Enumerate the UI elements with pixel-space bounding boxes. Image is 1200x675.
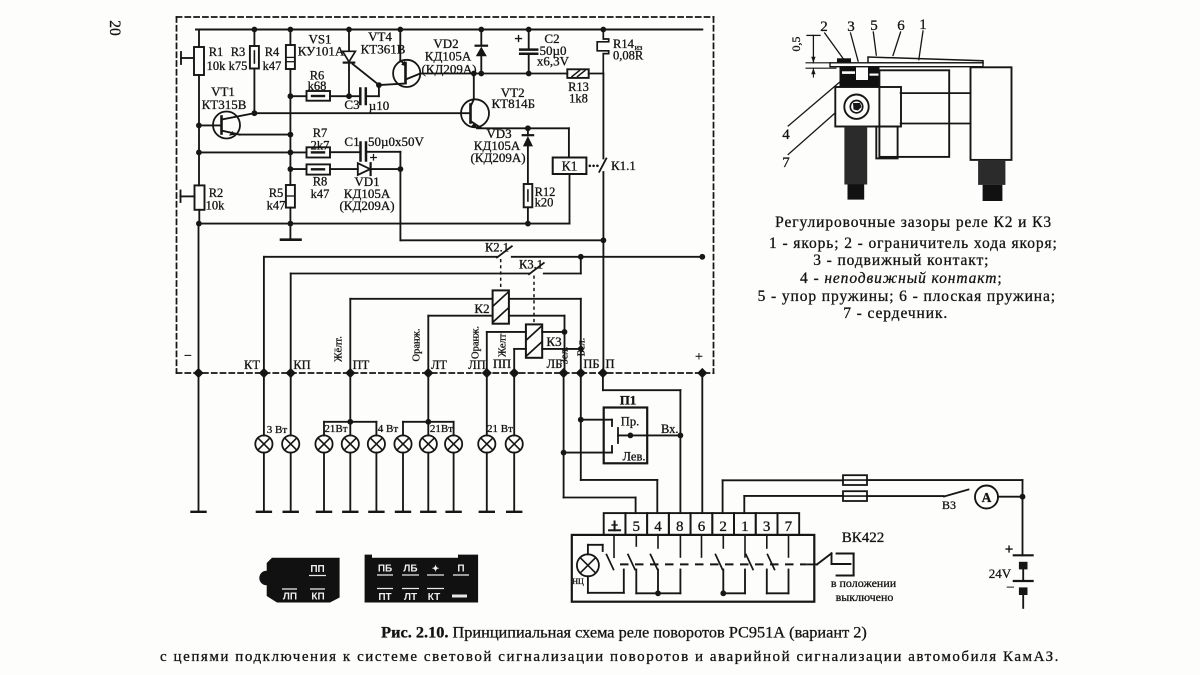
svg-text:К1.1: К1.1 — [611, 158, 636, 173]
terminal P — [598, 368, 608, 378]
svg-text:4: 4 — [782, 127, 790, 143]
contact K2.1 — [497, 246, 512, 257]
relay coil K1 — [553, 158, 587, 175]
BK422 contact stubs — [613, 535, 615, 557]
svg-text:10k: 10k — [206, 199, 226, 213]
svg-text:ПТ: ПТ — [353, 358, 370, 372]
relay unit dashed border — [177, 16, 714, 18]
svg-text:ПБ: ПБ — [378, 564, 392, 575]
svg-text:П: П — [605, 357, 614, 371]
wire pin 2 to fuse 1 — [722, 480, 724, 513]
svg-text:21 Вт: 21 Вт — [487, 423, 513, 435]
svg-text:1: 1 — [741, 519, 749, 535]
svg-text:6: 6 — [698, 519, 706, 535]
relay mech drawing: flat spring 6 — [868, 57, 983, 63]
resistor R5 — [286, 185, 295, 208]
lamp LT-3 — [445, 435, 462, 452]
svg-text:ЛТ: ЛТ — [431, 358, 447, 372]
svg-text:+: + — [514, 32, 523, 48]
svg-text:ПП: ПП — [493, 357, 511, 371]
top supply rail — [196, 29, 702, 31]
relay mech drawing: yoke bars — [901, 92, 971, 94]
pilot lamp in BK422 — [577, 554, 599, 576]
lamp PT-2 — [342, 435, 359, 452]
relay mech drawing: right block — [971, 67, 1012, 160]
terminal KP — [286, 368, 296, 378]
lamp LT-1 21W — [394, 435, 411, 452]
BK422 bottom links — [635, 570, 637, 594]
svg-text:(КД209А): (КД209А) — [421, 61, 476, 76]
wire plus riser to pin 6 — [701, 373, 703, 513]
wire Lev link — [564, 452, 612, 454]
svg-text:П1: П1 — [620, 393, 637, 408]
svg-text:1k8: 1k8 — [569, 92, 588, 106]
svg-text:ВК422: ВК422 — [842, 530, 885, 546]
diode VD1 — [330, 168, 358, 170]
svg-text:4: 4 — [654, 519, 662, 535]
svg-text:0,5: 0,5 — [789, 37, 803, 52]
wire LP to K3 — [486, 332, 488, 373]
svg-text:в положении: в положении — [831, 576, 897, 590]
resistor R12 — [524, 184, 533, 207]
wire R4 down to R5 — [289, 69, 291, 185]
resistor R4 — [289, 30, 291, 46]
wire PP to K3 — [513, 349, 515, 373]
thyristor VS1 — [348, 30, 350, 52]
resistor R8 — [290, 168, 306, 170]
lamp KP — [290, 373, 292, 435]
wire K2.1 from KT terminal — [263, 257, 265, 373]
wire PB to pin 4 — [580, 373, 582, 480]
wire LT to K2 — [427, 316, 429, 373]
BK422 actuator lever — [807, 563, 817, 565]
svg-text:4 Вт: 4 Вт — [378, 423, 399, 435]
relay mech drawing: armature limiter 2 black cap — [837, 58, 851, 63]
shunt resistor R14 — [597, 30, 609, 74]
svg-text:R1: R1 — [209, 45, 224, 59]
svg-text:К1: К1 — [562, 159, 578, 174]
svg-text:КТ361В: КТ361В — [361, 42, 406, 57]
lamp leads inside BK422 — [587, 545, 589, 555]
diode VD2 — [480, 30, 482, 46]
svg-text:−: − — [184, 349, 192, 364]
connector BK422 body — [572, 535, 815, 602]
relay mech drawing: left core leg 7 — [844, 127, 867, 185]
wire K3 right bottom — [542, 348, 581, 350]
svg-text:4 - неподвижный контакт;: 4 - неподвижный контакт; — [800, 270, 1002, 287]
resistor R6 — [290, 95, 306, 97]
relay mech drawing: contact stack black — [840, 63, 880, 88]
transistor VT4 — [393, 60, 420, 87]
svg-text:ПБ: ПБ — [583, 357, 599, 371]
lamp group PT bus — [349, 373, 351, 422]
svg-text:5: 5 — [633, 519, 641, 535]
svg-text:x6,3V: x6,3V — [537, 54, 570, 69]
ammeter A — [975, 486, 998, 509]
svg-text:✦: ✦ — [432, 564, 440, 574]
wire pin 1 to fuse 2 — [743, 496, 745, 513]
svg-text:НЦ: НЦ — [572, 577, 584, 586]
svg-text:КТ: КТ — [244, 358, 260, 372]
svg-text:+: + — [1005, 542, 1014, 558]
switch V3 — [944, 490, 969, 497]
wire Pr link — [581, 419, 612, 421]
svg-text:C1: C1 — [344, 134, 359, 149]
wire K3 right top — [542, 331, 564, 333]
wire P to pin 8 — [602, 373, 604, 390]
svg-text:20: 20 — [106, 20, 123, 36]
wire fuse 2 to switch V3 — [867, 495, 944, 497]
svg-text:µ10: µ10 — [369, 98, 390, 113]
resistor R2 — [195, 185, 205, 209]
svg-text:2: 2 — [820, 19, 828, 35]
connector block 2 — [365, 555, 479, 603]
svg-text:Оранж.: Оранж. — [412, 329, 423, 362]
battery 24V — [1014, 554, 1033, 556]
wire K2 right top to PB line — [509, 298, 581, 300]
connector BK422 pin row — [604, 513, 626, 535]
terminal LB — [559, 368, 569, 378]
wire VD1 node down to P wire — [399, 169, 401, 240]
svg-text:ЛТ: ЛТ — [404, 592, 417, 603]
wire VT2 emitter to K1 — [477, 127, 569, 129]
svg-text:5: 5 — [870, 18, 878, 34]
relay mech drawing: body — [879, 70, 949, 157]
svg-text:k20: k20 — [535, 196, 554, 210]
resistor R7 wire — [199, 151, 307, 153]
fuse FU1 — [843, 475, 867, 485]
svg-text:А: А — [982, 490, 992, 505]
BK422 coupling dashed line — [620, 563, 806, 565]
wire VT4 collector to R13 — [420, 73, 567, 75]
terminal PP — [509, 368, 519, 378]
svg-text:C3: C3 — [344, 97, 359, 112]
resistor R13 — [567, 69, 588, 78]
terminal bus dashed line (border bottom) — [177, 372, 714, 374]
wire VT2 base — [254, 112, 470, 114]
svg-text:ЛП: ЛП — [468, 358, 486, 372]
svg-text:7: 7 — [785, 519, 793, 535]
capacitor C3 — [359, 89, 362, 105]
svg-text:3 Вт: 3 Вт — [267, 424, 288, 436]
svg-text:П: П — [457, 564, 464, 575]
left vertical R1-R2 — [198, 75, 200, 185]
svg-text:3: 3 — [763, 519, 771, 535]
svg-text:7 - сердечник.: 7 - сердечник. — [843, 305, 948, 322]
svg-text:Зел.: Зел. — [560, 347, 571, 365]
svg-text:К2: К2 — [474, 301, 489, 316]
svg-text:Лев.: Лев. — [623, 450, 646, 464]
switch P1 box — [604, 408, 648, 464]
svg-text:R3: R3 — [231, 45, 246, 59]
lamp LT-2 — [420, 435, 437, 452]
svg-text:k47: k47 — [263, 59, 282, 73]
svg-text:Оранж.: Оранж. — [471, 326, 482, 359]
svg-text:К3.1: К3.1 — [519, 258, 543, 272]
relay coil K3 — [526, 324, 542, 357]
transistor VT1 — [213, 112, 240, 139]
svg-text:КТ814Б: КТ814Б — [492, 96, 536, 111]
terminal KT — [259, 368, 269, 378]
lamp PT-1 21W — [315, 435, 332, 452]
svg-text:k75: k75 — [229, 59, 248, 73]
lamp group LT bus — [427, 373, 429, 422]
svg-text:КУ101А: КУ101А — [298, 44, 345, 59]
terminal minus — [193, 368, 203, 378]
svg-text:Жёлт.: Жёлт. — [334, 336, 345, 362]
resistor R3 — [253, 30, 255, 47]
svg-text:10k: 10k — [207, 59, 227, 73]
svg-text:КТ315В: КТ315В — [202, 97, 247, 112]
relay mech drawing: bolt — [844, 95, 868, 119]
svg-text:КП: КП — [311, 592, 324, 603]
wire K1.1 riser to P terminal — [602, 74, 604, 159]
svg-text:50µ0x50V: 50µ0x50V — [368, 134, 424, 149]
transistor VT2 — [473, 74, 475, 100]
terminal LT — [423, 368, 433, 378]
svg-text:7: 7 — [782, 155, 790, 171]
relay coil K2 — [493, 290, 509, 323]
svg-text:(КД209А): (КД209А) — [339, 198, 394, 213]
terminal PT — [345, 368, 355, 378]
minus wire termination — [198, 373, 200, 512]
lamp PT-3 4W — [368, 435, 385, 452]
svg-text:8: 8 — [676, 519, 684, 535]
lamp LP 21W — [486, 373, 488, 435]
svg-text:КП: КП — [293, 358, 310, 372]
svg-text:2: 2 — [719, 519, 727, 535]
svg-text:Рис. 2.10. Принципиальная схем: Рис. 2.10. Принципиальная схема реле пов… — [381, 623, 867, 642]
svg-text:ЛП: ЛП — [283, 592, 297, 603]
terminal plus — [697, 368, 707, 378]
capacitor C1 — [330, 151, 360, 153]
svg-text:с цепями подключения к системе: с цепями подключения к системе световой … — [160, 649, 1060, 665]
terminal PB — [576, 368, 586, 378]
svg-text:(КД209А): (КД209А) — [470, 150, 525, 165]
lamp PP — [513, 373, 515, 435]
svg-text:2k7: 2k7 — [311, 139, 330, 153]
wire LB to pin 5 — [563, 373, 565, 498]
resistor R1 — [198, 30, 200, 48]
svg-text:КТ: КТ — [428, 592, 440, 603]
svg-text:k47: k47 — [267, 199, 286, 213]
svg-text:Бел.: Бел. — [577, 338, 588, 357]
minus riser — [198, 224, 200, 373]
svg-text:ЛБ: ЛБ — [403, 564, 417, 575]
svg-text:ПТ: ПТ — [378, 592, 391, 603]
svg-text:ПП: ПП — [310, 564, 324, 575]
svg-text:К2.1: К2.1 — [485, 241, 509, 255]
svg-text:k47: k47 — [311, 187, 330, 201]
relay mech drawing: armature plate 1 — [830, 63, 983, 67]
svg-text:3 - подвижный контакт;: 3 - подвижный контакт; — [813, 252, 989, 269]
svg-text:+: + — [695, 350, 703, 365]
svg-text:1 - якорь; 2 - ограничитель хо: 1 - якорь; 2 - ограничитель хода якоря; — [769, 235, 1058, 252]
svg-text:Вх.: Вх. — [661, 422, 679, 436]
diode VD3 — [527, 128, 529, 135]
svg-text:24V: 24V — [989, 566, 1012, 581]
wire K3.1 from KP terminal — [290, 274, 292, 374]
svg-text:Регулировочные зазоры реле К2: Регулировочные зазоры реле К2 и К3 — [775, 214, 1052, 231]
connector block 1 — [267, 558, 340, 603]
wire PT to K2 — [349, 299, 351, 373]
relay mech drawing: right leg — [978, 160, 1005, 185]
svg-text:выключено: выключено — [836, 590, 894, 604]
bottom rail (minus) — [199, 223, 570, 225]
terminal LP — [482, 368, 492, 378]
resistor R7 — [307, 147, 331, 157]
svg-text:−: − — [1006, 580, 1014, 596]
BK422 contact arms — [607, 555, 614, 570]
svg-text:Пр.: Пр. — [621, 415, 639, 429]
mech leader lines — [825, 33, 843, 58]
svg-text:В3: В3 — [942, 498, 956, 512]
svg-text:R4: R4 — [265, 45, 280, 59]
ground symbol — [289, 224, 291, 239]
lamp KT 3W — [263, 373, 265, 435]
svg-text:Желт: Желт — [498, 333, 509, 357]
contact K1.1 — [599, 159, 606, 172]
fuse FU2 — [843, 491, 867, 501]
wire K2 right bottom to LB line — [509, 315, 565, 317]
svg-text:21Вт: 21Вт — [324, 423, 347, 435]
svg-text:k68: k68 — [308, 79, 327, 93]
capacitor C2 — [528, 30, 530, 50]
relay mech drawing: core bracket 4 — [835, 87, 901, 127]
contact K3.1 — [529, 263, 544, 274]
svg-text:21Вт: 21Вт — [430, 423, 453, 435]
svg-text:5 - упор пружины; 6 - плоская: 5 - упор пружины; 6 - плоская пружина; — [758, 288, 1056, 305]
wire fuse 1 to battery plus — [867, 479, 1023, 481]
P1 common pole — [617, 428, 619, 443]
svg-text:0,08R: 0,08R — [613, 49, 644, 63]
